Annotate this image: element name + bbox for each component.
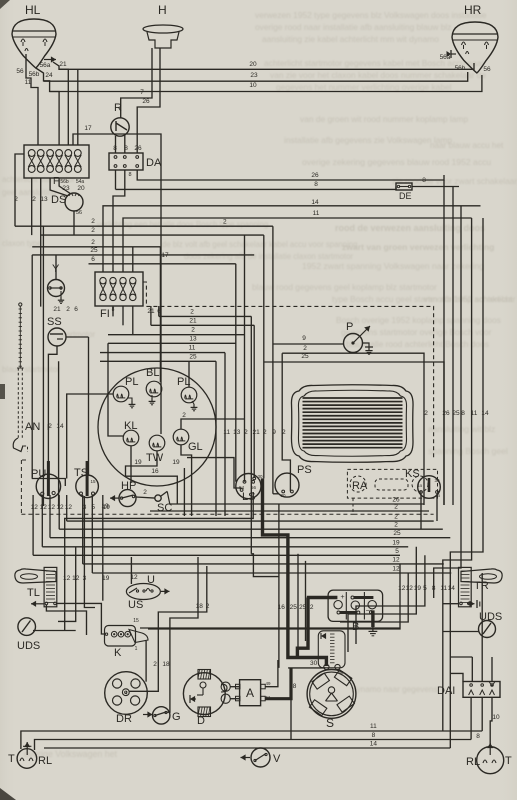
wire center v 9 <box>272 226 274 494</box>
arrow TR <box>467 603 475 605</box>
svg-text:overige rood naar installatie: overige rood naar installatie afb aanslu… <box>255 22 451 32</box>
switch UDS right <box>479 621 496 638</box>
wire TR in a <box>443 603 459 605</box>
svg-text:zie rood de voor zwart schakel: zie rood de voor zwart schakelaar <box>392 176 517 186</box>
wire bus 2 y235.1 <box>41 234 264 236</box>
wire FI out 21 <box>150 306 152 325</box>
svg-text:14: 14 <box>448 585 456 592</box>
svg-text:15: 15 <box>90 479 96 484</box>
wire DAI feed 472 <box>471 657 473 682</box>
wire rv 8 <box>434 206 461 598</box>
wire SS right <box>66 336 89 338</box>
wire bus 8 to DE <box>116 187 397 190</box>
headlight HL <box>12 19 56 68</box>
antenna AN <box>19 303 22 306</box>
wire TL v 3 <box>84 496 95 608</box>
wire PS in 9 <box>273 493 279 495</box>
arrow HP <box>110 497 119 499</box>
svg-text:9: 9 <box>302 335 306 342</box>
wire bus 2 y334.7 <box>108 334 245 336</box>
wire fan 12a <box>148 564 400 629</box>
svg-text:2: 2 <box>394 504 398 511</box>
svg-text:gegevens het nummer verlichtin: gegevens het nummer verlichting overige … <box>276 82 452 92</box>
svg-text:8: 8 <box>113 145 117 152</box>
svg-text:13: 13 <box>189 335 197 342</box>
wire LS 56 to TL <box>65 492 254 631</box>
sender P <box>344 334 363 353</box>
wire fan 5 <box>356 555 425 644</box>
svg-text:12: 12 <box>392 556 400 563</box>
svg-text:18: 18 <box>162 661 170 668</box>
cable LS-S thick <box>263 478 327 666</box>
svg-text:56a: 56a <box>440 54 451 61</box>
svg-text:25: 25 <box>90 247 98 254</box>
wire FI col stub b <box>122 306 124 325</box>
wire bus 25 y361.3 <box>100 360 216 362</box>
svg-text:RA: RA <box>352 480 368 492</box>
wire bus 6 y263.8 <box>89 263 236 265</box>
svg-text:23: 23 <box>250 72 258 79</box>
svg-text:6: 6 <box>74 306 78 313</box>
wire TS v down <box>82 495 84 564</box>
svg-text:26: 26 <box>311 172 319 179</box>
wire rv 14 <box>450 218 483 748</box>
ground HR <box>451 53 456 55</box>
wire PLr up <box>188 361 190 387</box>
svg-text:doos zekering afb de installat: doos zekering afb de installatie claxon … <box>184 252 353 261</box>
lamp KL <box>123 430 139 446</box>
wire bus 21 y325.3 <box>151 324 254 326</box>
svg-text:11: 11 <box>189 345 196 352</box>
svg-text:16: 16 <box>278 604 286 611</box>
svg-text:TL: TL <box>27 587 40 599</box>
wire DAI feed 482 <box>481 573 483 682</box>
svg-text:11: 11 <box>313 210 320 217</box>
wire FI col stub a <box>112 306 114 316</box>
svg-text:7: 7 <box>140 89 144 96</box>
svg-text:8: 8 <box>314 181 318 188</box>
svg-text:12: 12 <box>48 504 56 511</box>
svg-text:2: 2 <box>48 423 52 430</box>
svg-text:11: 11 <box>370 723 377 730</box>
starter S <box>307 670 356 719</box>
battery B <box>328 590 383 621</box>
wire DAI down 11 <box>481 697 483 731</box>
wire PU over wire <box>32 479 66 487</box>
svg-text:14: 14 <box>370 741 378 748</box>
wire KL left up <box>108 343 123 436</box>
wire center v 13 <box>235 264 237 482</box>
ground PL right <box>192 401 194 404</box>
svg-text:2: 2 <box>263 429 267 436</box>
wire v 25 a <box>297 554 299 648</box>
svg-text:naar blauw accu het: naar blauw accu het <box>430 141 504 150</box>
wire 14 up to DAI <box>450 673 463 681</box>
wire bus 13 y343.3 <box>108 342 236 344</box>
svg-text:5: 5 <box>395 548 399 555</box>
svg-text:25: 25 <box>393 530 401 537</box>
svg-text:2: 2 <box>32 196 36 203</box>
wire DA down b to FI <box>113 170 125 272</box>
svg-text:AN: AN <box>25 421 40 433</box>
svg-text:1952 zwart spanning Volkswagen: 1952 zwart spanning Volkswagen naar zeke… <box>302 261 484 271</box>
svg-text:19: 19 <box>103 504 111 511</box>
wire center v 2e <box>263 235 265 478</box>
svg-text:23: 23 <box>62 185 70 192</box>
wire bus 10 run <box>50 75 482 92</box>
wire HP to SC <box>136 497 155 498</box>
wire US in 12 <box>130 557 132 584</box>
svg-text:12: 12 <box>40 504 48 511</box>
wire HL lead 56 <box>26 54 38 145</box>
wire DAI down 8 <box>470 697 472 740</box>
horn button HP <box>119 490 136 507</box>
wire bus 11 right <box>123 218 472 272</box>
svg-text:DE: DE <box>399 191 412 201</box>
wire DS down <box>73 211 75 235</box>
wire console v x66.7 <box>66 495 68 521</box>
tail lamp RL left <box>17 749 37 769</box>
svg-text:V: V <box>273 753 281 765</box>
wire v 25 c <box>215 361 217 516</box>
horn H <box>143 25 183 33</box>
wire cluster down mid <box>183 468 185 516</box>
svg-text:12: 12 <box>65 504 73 511</box>
svg-text:2: 2 <box>91 239 95 246</box>
wire left v 14 <box>58 361 60 506</box>
svg-text:P: P <box>346 321 353 333</box>
arrow G <box>143 714 153 716</box>
wire Y up <box>55 255 57 280</box>
wire TL out b <box>46 605 86 635</box>
svg-text:24: 24 <box>45 72 53 79</box>
svg-text:DA: DA <box>146 157 162 169</box>
wire left v 2b <box>40 178 42 307</box>
arrow HL output <box>44 59 56 61</box>
wire v 11 c <box>224 353 226 516</box>
svg-text:25: 25 <box>189 353 197 360</box>
wire R to DA b <box>124 135 126 153</box>
svg-text:14: 14 <box>56 423 64 430</box>
wire v16 jog <box>251 554 279 577</box>
relay R <box>111 118 129 136</box>
svg-text:12: 12 <box>130 574 138 581</box>
svg-text:26: 26 <box>442 410 450 417</box>
svg-text:15: 15 <box>418 483 423 488</box>
svg-text:K: K <box>114 647 122 659</box>
svg-text:21: 21 <box>53 306 61 313</box>
ground TR <box>476 600 478 608</box>
wire left v 2c <box>31 255 33 479</box>
svg-text:2: 2 <box>191 327 195 334</box>
svg-text:2: 2 <box>91 218 95 225</box>
wire console v x42.3 <box>41 495 43 547</box>
svg-text:RL: RL <box>38 755 52 767</box>
svg-text:8: 8 <box>432 585 436 592</box>
svg-text:8: 8 <box>476 733 480 740</box>
instrument cluster <box>98 368 216 486</box>
svg-text:20: 20 <box>249 61 257 68</box>
ground P <box>363 343 370 347</box>
svg-text:6: 6 <box>91 256 95 263</box>
arrow V <box>241 757 251 759</box>
switch SS <box>48 328 66 346</box>
wire wire 17 <box>73 134 161 434</box>
wire DAI down 10 <box>490 697 492 744</box>
svg-text:PS: PS <box>297 464 312 476</box>
regulator A <box>240 680 261 706</box>
wire UDS r out <box>443 631 479 633</box>
svg-text:12: 12 <box>398 585 406 592</box>
svg-text:13: 13 <box>233 429 241 436</box>
svg-text:aansluiting wit blz: aansluiting wit blz <box>428 424 495 434</box>
wire fan 19 <box>348 547 416 652</box>
svg-text:30: 30 <box>257 474 263 479</box>
svg-text:blauw rood gegevens geel kopla: blauw rood gegevens geel koplamp blz sta… <box>252 282 437 292</box>
svg-text:14: 14 <box>311 199 319 206</box>
wire bus 2 y246.8 <box>32 246 160 248</box>
svg-text:van de groen wit rood nummer k: van de groen wit rood nummer koplamp lam… <box>300 114 468 124</box>
svg-text:HP: HP <box>121 480 136 492</box>
lamp TW <box>149 435 165 451</box>
wire DAI feed conn <box>450 656 472 658</box>
svg-text:dynamo naar gegevens: dynamo naar gegevens <box>352 685 438 694</box>
wire bus 14 right <box>103 206 481 272</box>
wire KL down <box>130 446 132 483</box>
cable B- thick <box>371 612 373 627</box>
wire bus 9 right <box>273 343 344 345</box>
wire FI feed4 <box>132 247 134 272</box>
wire bus 25 right <box>264 362 444 505</box>
wire R to DA a <box>115 136 117 153</box>
wire center v 21 <box>253 325 255 478</box>
svg-text:T: T <box>8 753 15 765</box>
svg-text:11: 11 <box>471 410 478 417</box>
lamp PL left <box>113 386 129 402</box>
ground B <box>372 627 374 631</box>
wire bus 20 run <box>59 63 474 69</box>
svg-text:19: 19 <box>414 585 422 592</box>
svg-text:2: 2 <box>91 227 95 234</box>
wire FI col stub c <box>132 306 134 335</box>
svg-text:FI: FI <box>100 308 110 320</box>
svg-text:aansluiting zie kabel achterli: aansluiting zie kabel achterlicht mm wit… <box>262 34 439 44</box>
svg-text:BL: BL <box>146 367 159 379</box>
speaker grille <box>291 385 413 463</box>
svg-text:8: 8 <box>461 410 465 417</box>
svg-text:56: 56 <box>251 485 257 490</box>
wire v8 low <box>290 668 292 740</box>
svg-text:installatie afb gegevens zie V: installatie afb gegevens zie Volkswagen … <box>284 135 452 145</box>
svg-text:2: 2 <box>310 604 314 611</box>
wire bus 11 y352.6 <box>100 352 225 354</box>
wire bottom 11 <box>21 731 482 749</box>
svg-text:25: 25 <box>452 410 460 417</box>
svg-text:17: 17 <box>161 252 169 259</box>
svg-text:12: 12 <box>31 504 39 511</box>
wire console v x50 <box>49 495 51 538</box>
svg-text:PL: PL <box>125 376 138 388</box>
wire rv 25 <box>452 187 454 506</box>
trafficator TL <box>15 569 56 583</box>
wire horn lead 26 <box>137 48 160 153</box>
svg-text:−: − <box>366 608 370 615</box>
svg-text:21: 21 <box>147 308 155 315</box>
svg-text:11: 11 <box>25 79 32 86</box>
wire GL down <box>181 445 192 516</box>
cable A-S thick <box>265 668 291 699</box>
wire F col3 to DS <box>50 178 68 196</box>
wire fan 12b <box>340 573 408 622</box>
svg-text:49: 49 <box>265 681 271 686</box>
wire left v 13 <box>42 226 44 506</box>
ground PL left <box>127 398 132 401</box>
wire bus 25 y254.9 <box>32 254 254 256</box>
svg-text:de blz volt afb geel schakelaa: de blz volt afb geel schakelaar kabel ac… <box>162 240 357 249</box>
svg-text:TR: TR <box>474 580 489 592</box>
svg-text:8: 8 <box>293 683 297 690</box>
svg-text:21: 21 <box>59 61 67 68</box>
regulator US <box>126 584 160 600</box>
svg-text:US: US <box>128 599 143 611</box>
wire HL lead 56b <box>36 68 59 145</box>
stop switch V <box>251 748 270 767</box>
svg-text:HR: HR <box>464 3 482 17</box>
wire v 25 b <box>305 561 307 641</box>
svg-text:30: 30 <box>310 660 318 667</box>
wire KS down b <box>436 494 438 521</box>
scan mark left edge <box>0 384 5 399</box>
svg-text:2: 2 <box>424 410 428 417</box>
svg-text:18: 18 <box>196 603 204 610</box>
svg-text:GL: GL <box>188 441 203 453</box>
svg-text:16: 16 <box>151 468 159 475</box>
fuel gauge PU <box>36 474 60 498</box>
svg-text:HL: HL <box>25 3 41 17</box>
svg-text:2: 2 <box>303 345 307 352</box>
wire D to A b <box>230 698 239 700</box>
wire V up <box>260 747 262 749</box>
svg-text:9: 9 <box>272 429 276 436</box>
svg-text:2: 2 <box>143 489 147 496</box>
svg-text:8: 8 <box>128 172 131 178</box>
resistor DE <box>396 183 412 190</box>
svg-text:RL: RL <box>466 756 480 768</box>
solenoid S <box>318 631 345 668</box>
svg-text:DAI: DAI <box>437 685 455 697</box>
svg-text:21: 21 <box>252 429 260 436</box>
dynamo D <box>183 673 225 715</box>
svg-text:spanning Bosch geel: spanning Bosch geel <box>428 446 508 456</box>
wire bottom 14 <box>44 747 450 749</box>
wire TL v 12b <box>58 547 76 622</box>
terminal sq b <box>236 696 241 701</box>
wire K 15 line <box>140 627 400 629</box>
svg-text:14: 14 <box>481 410 489 417</box>
switch UDS left <box>18 618 36 636</box>
svg-text:2: 2 <box>244 429 248 436</box>
wire wire 18 to G <box>166 557 198 712</box>
svg-text:DR: DR <box>116 713 132 725</box>
svg-text:H: H <box>158 3 167 17</box>
ignition switch KS <box>418 476 441 499</box>
svg-text:S: S <box>326 716 334 730</box>
wire A out thin <box>265 660 278 687</box>
svg-text:8: 8 <box>372 732 376 739</box>
wire 19 v down <box>102 495 104 601</box>
svg-text:12: 12 <box>392 566 400 573</box>
svg-text:21: 21 <box>189 317 197 324</box>
svg-text:Bosch overige 1952 koplamp spa: Bosch overige 1952 koplamp spanning doos <box>336 315 501 325</box>
arrow T right <box>489 743 491 755</box>
wire A-S 30 line <box>288 667 325 669</box>
svg-text:2: 2 <box>394 522 398 529</box>
svg-text:10: 10 <box>492 714 500 721</box>
wire band 5 y555.3 <box>33 554 400 556</box>
fuse box FI <box>95 272 143 306</box>
svg-text:8: 8 <box>124 145 128 152</box>
socket PS <box>275 473 299 497</box>
wire SS down right <box>48 346 57 486</box>
wire band 25 y537.7 <box>50 537 450 539</box>
wire rv 26 <box>443 180 445 505</box>
wire v 2 y316 <box>250 316 252 553</box>
wire KS down a <box>420 494 422 529</box>
svg-text:U: U <box>147 574 155 586</box>
svg-text:DS: DS <box>51 194 66 206</box>
svg-text:56: 56 <box>16 68 24 75</box>
wire D to A a <box>230 686 239 688</box>
wire K 1 down <box>145 641 147 682</box>
wire console v x33.1 <box>32 495 34 555</box>
svg-text:19: 19 <box>172 459 180 466</box>
svg-text:B: B <box>352 621 359 633</box>
ignition coil K <box>105 626 136 647</box>
wire TS v down2 <box>91 495 93 573</box>
terminal sq a <box>236 684 241 689</box>
wire FI out 6b <box>158 306 160 316</box>
wire GL top 2 <box>181 419 245 429</box>
svg-text:12: 12 <box>56 504 64 511</box>
svg-text:A: A <box>246 686 254 700</box>
wire DAI feed 492 <box>491 657 493 682</box>
wire band 2 y511 <box>150 510 429 512</box>
wire console v x59.2 <box>58 495 60 529</box>
svg-text:2: 2 <box>14 196 18 203</box>
svg-text:SS: SS <box>47 316 62 328</box>
wire bus 2 y316.4 <box>159 315 252 317</box>
wire DA down a <box>115 170 117 189</box>
svg-text:20: 20 <box>77 185 85 192</box>
svg-text:G: G <box>172 711 181 723</box>
svg-text:10: 10 <box>249 82 257 89</box>
wire band 12 y563.9 <box>83 563 444 565</box>
svg-text:30: 30 <box>434 478 440 483</box>
lamp BL <box>146 381 162 397</box>
switch SC <box>155 495 161 501</box>
arrow US <box>161 590 170 592</box>
wire F left out <box>15 154 24 226</box>
trafficator TR <box>461 569 502 583</box>
svg-text:25: 25 <box>301 353 309 360</box>
lamp GL <box>173 429 189 445</box>
scan mark bottom-left <box>0 788 16 800</box>
fuel sender TS <box>76 475 99 498</box>
scan corner mark top-left <box>0 0 10 9</box>
radio RA <box>347 469 437 498</box>
wire LS 54 wire <box>187 458 242 488</box>
lamp PL right <box>181 387 197 403</box>
